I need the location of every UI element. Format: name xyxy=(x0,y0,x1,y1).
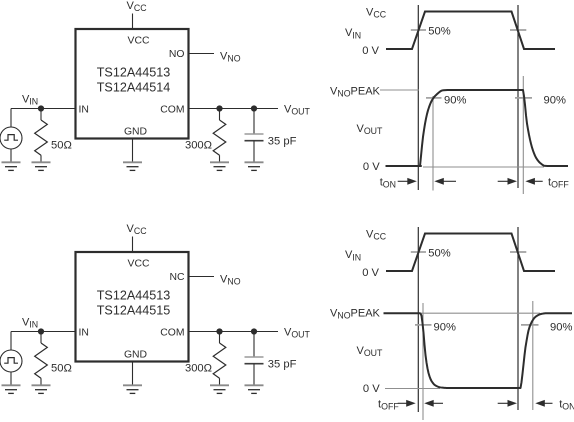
svg-text:0 V: 0 V xyxy=(363,383,380,395)
svg-text:VCC: VCC xyxy=(366,7,387,20)
svg-text:50Ω: 50Ω xyxy=(51,140,72,152)
svg-text:VCC: VCC xyxy=(366,229,387,242)
svg-text:tON: tON xyxy=(380,176,396,189)
svg-text:VIN: VIN xyxy=(22,317,38,330)
svg-text:50Ω: 50Ω xyxy=(51,363,72,375)
svg-text:VIN: VIN xyxy=(345,27,361,40)
svg-text:VCC: VCC xyxy=(128,259,150,270)
svg-text:TS12A44515: TS12A44515 xyxy=(97,304,171,318)
svg-text:0 V: 0 V xyxy=(363,161,380,173)
svg-text:VOUT: VOUT xyxy=(357,345,384,358)
svg-text:VNOPEAK: VNOPEAK xyxy=(330,308,381,321)
svg-text:300Ω: 300Ω xyxy=(185,140,212,152)
svg-text:VCC: VCC xyxy=(128,36,150,47)
svg-text:NO: NO xyxy=(169,49,185,60)
svg-text:VCC: VCC xyxy=(127,0,148,13)
svg-text:GND: GND xyxy=(124,127,147,138)
svg-text:90%: 90% xyxy=(544,95,566,107)
svg-text:VCC: VCC xyxy=(127,223,148,236)
svg-text:COM: COM xyxy=(160,105,184,116)
svg-text:300Ω: 300Ω xyxy=(185,363,212,375)
svg-text:VIN: VIN xyxy=(22,94,38,107)
svg-text:VNOPEAK: VNOPEAK xyxy=(330,86,381,99)
svg-text:50%: 50% xyxy=(428,26,450,38)
svg-text:90%: 90% xyxy=(444,95,466,107)
svg-text:VNO: VNO xyxy=(220,51,241,64)
svg-text:IN: IN xyxy=(79,105,89,116)
svg-text:35 pF: 35 pF xyxy=(268,135,297,147)
svg-text:VOUT: VOUT xyxy=(284,104,311,117)
svg-text:0 V: 0 V xyxy=(362,45,379,57)
svg-text:COM: COM xyxy=(160,328,184,339)
svg-text:NC: NC xyxy=(169,272,185,283)
svg-text:tON: tON xyxy=(559,398,574,411)
svg-text:35 pF: 35 pF xyxy=(268,358,297,370)
svg-text:90%: 90% xyxy=(434,322,456,334)
svg-text:IN: IN xyxy=(79,328,89,339)
svg-text:VIN: VIN xyxy=(345,249,361,262)
svg-text:0 V: 0 V xyxy=(362,267,379,279)
svg-text:TS12A44513: TS12A44513 xyxy=(97,66,171,80)
svg-text:TS12A44513: TS12A44513 xyxy=(97,289,171,303)
svg-text:tOFF: tOFF xyxy=(548,176,569,189)
svg-text:tOFF: tOFF xyxy=(378,398,399,411)
svg-text:VNO: VNO xyxy=(220,274,241,287)
svg-text:GND: GND xyxy=(124,350,147,361)
svg-text:50%: 50% xyxy=(428,248,450,260)
svg-text:VOUT: VOUT xyxy=(284,327,311,340)
svg-text:VOUT: VOUT xyxy=(357,123,384,136)
svg-text:90%: 90% xyxy=(550,322,572,334)
svg-text:TS12A44514: TS12A44514 xyxy=(97,81,171,95)
